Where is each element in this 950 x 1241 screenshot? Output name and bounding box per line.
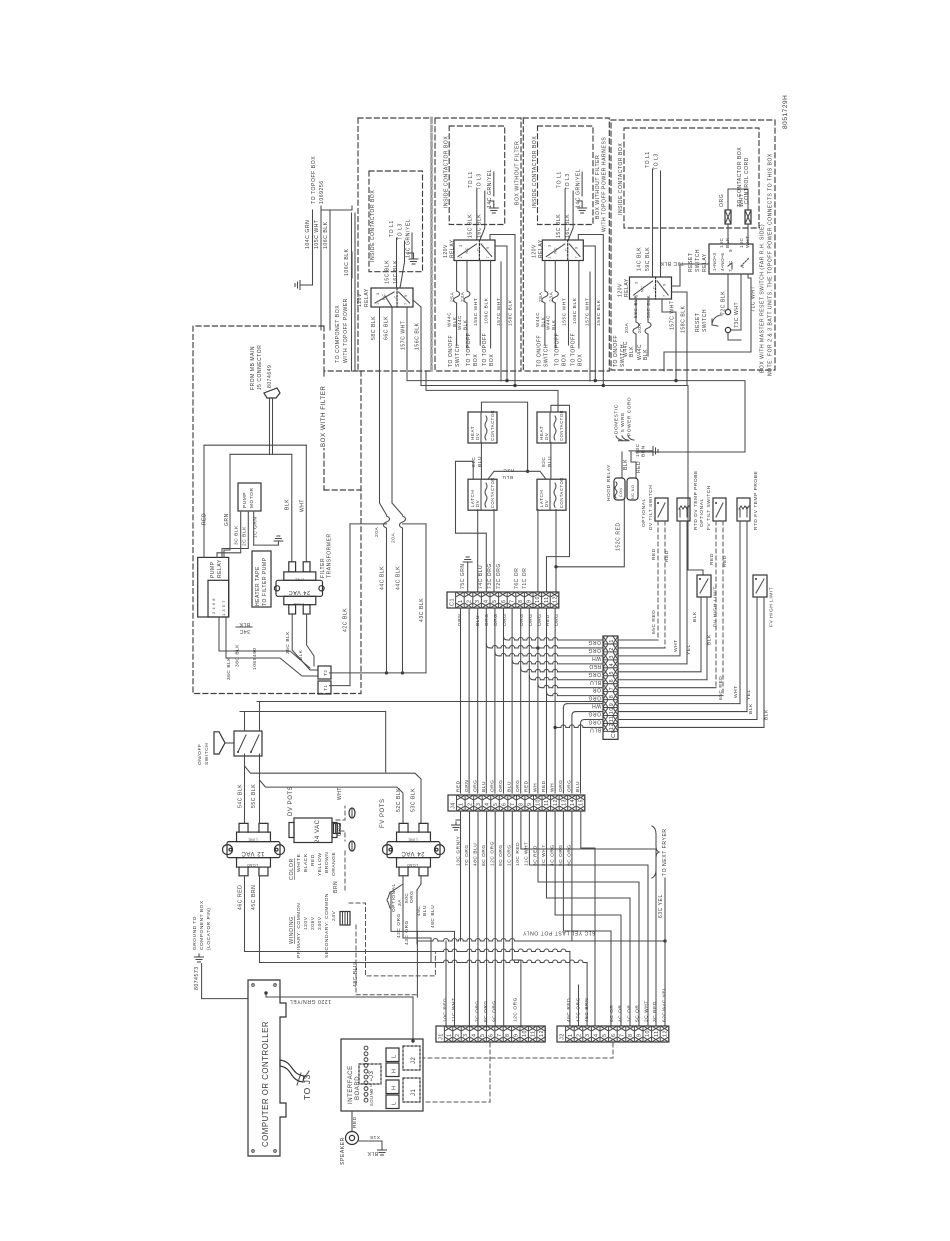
wire DV HL b [706,597,708,680]
svg-text:TO L1: TO L1 [468,171,474,188]
svg-text:OPTIONAL: OPTIONAL [391,883,397,912]
svg-text:4: 4 [484,599,490,603]
svg-text:WINDING: WINDING [289,916,295,944]
svg-text:ORG: ORG [337,823,343,836]
wire 49C dashed link [349,903,435,976]
svg-text:J2: J2 [411,1056,417,1064]
svg-text:157C WHT: 157C WHT [670,300,676,330]
svg-text:20A: 20A [637,323,643,333]
wire 158C BLK [490,235,515,386]
wire J4p3 down [477,811,479,1026]
svg-text:16C BLK: 16C BLK [393,260,399,284]
svg-text:BRN: BRN [333,881,339,893]
wire J4p8 right [521,811,656,1026]
svg-text:155C WHT: 155C WHT [473,298,479,326]
wire C6 row9 to J4 pin13 [567,703,603,705]
svg-text:GRN: GRN [224,513,230,526]
svg-text:3: 3 [585,1033,591,1037]
svg-text:COMPUTER OR CONTROLLER: COMPUTER OR CONTROLLER [261,1021,270,1147]
svg-text:NOTE: FOR 2 & 3 BATT UNITS, TH: NOTE: FOR 2 & 3 BATT UNITS, THE TOPOFF P… [768,153,774,376]
relay 120V [454,240,495,261]
fuse OPTIONAL 3A [387,892,390,908]
relay reset switch relay [709,244,753,274]
svg-text:5: 5 [492,599,498,603]
wire C1 pin4 to J4 [485,608,487,793]
svg-text:1: 1 [547,256,551,259]
svg-text:5: 5 [602,1033,608,1037]
wire C1 pin3 to J4 [477,608,479,793]
svg-text:11: 11 [544,596,550,603]
svg-text:75C GRN: 75C GRN [460,563,466,589]
svg-text:CONTACTOR: CONTACTOR [490,477,495,508]
breaker 20A b (box4) [645,322,651,334]
wire J4p10 right [538,811,639,1026]
wire 157C WHT (box4) [662,299,676,381]
svg-text:BOX WITH MASTER RESET SWITCH (: BOX WITH MASTER RESET SWITCH (FAR R.H. S… [760,224,766,373]
svg-text:J3: J3 [369,1070,375,1078]
svg-text:7: 7 [486,256,490,259]
hood relay HR [614,478,625,500]
svg-text:ORG: ORG [490,779,496,792]
svg-text:45C BRN: 45C BRN [251,885,257,910]
svg-text:BLK: BLK [748,703,754,714]
svg-text:1 3 5 7: 1 3 5 7 [221,600,226,616]
svg-text:106C BLK: 106C BLK [572,297,578,324]
wire FV out left [391,876,403,892]
svg-text:120V: 120V [531,244,537,258]
svg-text:J2: J2 [560,1033,566,1040]
svg-text:16C BLK: 16C BLK [477,214,483,238]
svg-text:12 VAC: 12 VAC [241,850,265,856]
T1 terminal [318,681,331,694]
speaker SP1 [346,1132,359,1145]
svg-text:6: 6 [501,802,507,806]
wire J4p15 down [581,811,595,1026]
svg-text:GRN: GRN [464,780,470,792]
svg-text:DV: DV [544,432,549,440]
svg-text:10: 10 [609,707,615,714]
svg-text:158C BLK: 158C BLK [596,299,602,326]
connector J2 on board (dashed) [403,1046,420,1070]
svg-text:3: 3 [547,244,551,247]
wire J4p12 right [555,811,621,1026]
svg-text:9C ORG: 9C ORG [498,844,504,866]
svg-text:73C ORG: 73C ORG [487,563,493,589]
svg-text:BLK: BLK [707,634,713,645]
wire 42C ORG [391,892,417,931]
tilt switch DV (optional) [655,498,668,521]
svg-text:ORG: ORG [493,613,499,626]
tilt switch FV (optional) [713,498,726,521]
svg-text:INTERFACE: INTERFACE [348,1065,354,1104]
svg-text:RED: RED [636,461,642,473]
svg-text:CONTACTOR: CONTACTOR [490,410,495,441]
wire 82C BLU [550,442,552,479]
svg-text:RED: RED [524,780,530,792]
wire 2C BLK [222,512,248,557]
svg-text:14C GRN/YEL: 14C GRN/YEL [406,219,412,258]
svg-text:(LOCATOR PIN): (LOCATOR PIN) [206,908,212,950]
wire 1C GRN [253,512,255,545]
wire C1 pin5 to J4 [494,608,496,793]
svg-text:4: 4 [594,1033,600,1037]
wire J4p6 down [503,811,505,1026]
bus rail 4 [500,380,502,382]
svg-text:BLK: BLK [285,499,291,510]
svg-text:7: 7 [509,599,515,603]
svg-text:1220 GRN/YEL: 1220 GRN/YEL [289,998,331,1004]
svg-text:BLACK: BLACK [303,853,309,872]
svg-text:TO CONTACTOR BOX: TO CONTACTOR BOX [737,147,743,207]
svg-text:208V: 208V [310,916,316,930]
svg-text:106C BLK: 106C BLK [344,248,350,276]
heater tape box [252,551,271,607]
svg-text:OPTIONAL: OPTIONAL [699,498,705,527]
svg-text:J1: J1 [411,1088,417,1096]
wire tilt FV dashed b [722,521,724,696]
svg-text:42C BLK: 42C BLK [343,608,349,632]
svg-text:10: 10 [522,1030,528,1037]
wire C6 right 4 [618,663,687,665]
bus rail 2 [421,386,703,576]
svg-text:11: 11 [544,799,550,806]
svg-text:WHT: WHT [337,787,343,800]
svg-text:5: 5 [480,1033,486,1037]
svg-text:62C/64C YEL: 62C/64C YEL [662,987,668,1022]
svg-text:3: 3 [476,802,482,806]
svg-text:158C BLK: 158C BLK [508,299,514,326]
svg-text:BLU: BLU [422,905,428,916]
wire rail 711 [240,712,386,773]
wire fuse F2 to reset relay [747,224,749,244]
svg-text:RELAY: RELAY [450,239,456,258]
wire power cord BLK [621,452,623,478]
svg-text:55C BLK: 55C BLK [251,784,257,808]
svg-text:156C BLK: 156C BLK [415,322,421,350]
svg-text:CONTACTOR: CONTACTOR [559,477,564,508]
svg-text:120V: 120V [357,293,363,307]
wire power cord RED [631,452,636,478]
svg-text:43C ORG: 43C ORG [404,920,410,945]
svg-text:12C ORG: 12C ORG [513,997,519,1022]
svg-text:6: 6 [488,1033,494,1037]
wire W44C BLK b (box4) [647,334,649,356]
wire speaker RED [351,1111,353,1131]
wire FV HL a [756,597,758,720]
svg-text:48C BLU: 48C BLU [353,963,359,987]
fuse F2 (box4) [745,210,751,224]
svg-text:158C BLK: 158C BLK [681,305,687,333]
svg-text:RED: RED [664,550,670,562]
svg-text:TO L1: TO L1 [389,220,395,237]
wire 73C WHT [731,274,741,330]
wire C6 right 8 [618,695,723,697]
wire 54C BLK [244,754,246,823]
svg-text:6: 6 [611,1033,617,1037]
svg-text:LOAD: LOAD [407,863,418,867]
wire speaker to ground [358,1141,382,1147]
wire latch1 left loop [456,461,487,592]
svg-text:120V: 120V [618,283,624,297]
wire topoff feed b [354,213,356,371]
svg-text:74C BLU: 74C BLU [478,565,484,589]
svg-text:TO COMPONET BOX: TO COMPONET BOX [335,305,341,363]
connector C1 [447,592,559,608]
ground speaker [381,1147,383,1150]
svg-text:R2C: R2C [503,467,514,473]
svg-text:1069490: 1069490 [252,647,258,670]
ground power cord [650,450,653,452]
wire relay R1 pin to 66C [391,307,393,372]
wire DV pots ORG dashed [340,831,345,841]
mid box inner dashed INSIDE CONTACTOR BOX [449,126,505,225]
svg-text:58C BLK: 58C BLK [633,295,639,318]
pump motor PM [238,483,261,511]
wire C6 row5 from C1 pin8 [521,668,525,672]
wire J4p5 down [494,811,496,1026]
svg-text:18C: 18C [739,237,745,248]
wire rail 773 [245,766,422,823]
svg-text:5 WIRE: 5 WIRE [620,412,626,432]
svg-text:11: 11 [609,715,615,722]
svg-text:C1: C1 [450,598,456,606]
wire 81C BLU [480,442,482,479]
svg-text:TO ON/OFF: TO ON/OFF [613,335,619,367]
svg-text:SECONDARY: COMMON: SECONDARY: COMMON [324,893,330,958]
svg-text:3: 3 [459,244,463,247]
wire 104C GRN [312,210,314,253]
box4 inner dashed INSIDE CONTACTOR BOX [624,128,759,228]
wire T2 rail [330,672,427,674]
wire 8074573 down [201,964,203,999]
svg-text:7: 7 [619,1033,625,1037]
wire 43C BLK [403,523,427,525]
svg-text:9: 9 [527,802,533,806]
wire DV pots WHT dashed [336,806,345,820]
svg-text:14C BLK: 14C BLK [637,247,643,271]
svg-text:BOX: BOX [577,354,583,366]
wire W44C BLK a [456,303,458,345]
svg-text:1C GRN: 1C GRN [253,517,259,538]
svg-text:11: 11 [530,1030,536,1037]
svg-text:240V: 240V [317,916,323,930]
svg-text:RTD DV TEMP PROBE: RTD DV TEMP PROBE [693,470,699,530]
svg-text:2: 2 [467,802,473,806]
box1 right edge gray dashed divider [430,118,433,371]
transformer T-FVPOTS [383,845,393,855]
svg-text:BOX WITHOUT FILTER: BOX WITHOUT FILTER [515,141,521,205]
svg-text:X18: X18 [370,1134,380,1140]
wire 36C BLK [219,617,310,668]
header L2 on board [386,1095,399,1109]
svg-text:NC: NC [465,247,469,254]
wire breaker 23A [554,261,556,292]
wire TO L1 to relay R1 [396,238,398,288]
svg-text:12: 12 [552,596,558,603]
svg-text:TO TOPOFF BOX: TO TOPOFF BOX [311,156,317,204]
svg-text:BOX WITHOUT FILTER: BOX WITHOUT FILTER [595,155,601,219]
svg-text:TO J3: TO J3 [302,1074,312,1100]
svg-text:34C: 34C [239,628,250,634]
svg-text:6: 6 [501,599,507,603]
ground (104C GRN) [300,284,303,286]
svg-text:YEL: YEL [746,689,752,700]
svg-text:LOAD: LOAD [247,863,258,867]
transformer T-12VAC [223,845,233,855]
wire TO L3 [480,191,485,240]
fuse oval DV a [349,808,355,818]
svg-text:J1: J1 [438,1033,444,1040]
probe RTD DV TEMP [677,498,690,521]
wire tilt DV dashed a [657,521,659,640]
svg-text:3: 3 [463,1033,469,1037]
wire 153C BRN [628,450,630,452]
svg-text:RED: RED [722,555,728,567]
svg-text:C6: C6 [611,730,617,738]
wire heat2 feed [547,405,570,592]
wire J4p11 right [547,811,631,1026]
svg-text:BLK: BLK [623,459,629,470]
svg-text:W44C: W44C [457,315,462,330]
svg-text:120V: 120V [443,244,449,258]
svg-text:9: 9 [527,599,533,603]
svg-text:ORANGE: ORANGE [331,851,337,876]
svg-text:LINE: LINE [295,578,304,582]
svg-text:ORG: ORG [498,779,504,792]
wire C1 pin7 to J4 [511,608,513,793]
wire C1 pin11 to J4 [546,608,548,793]
svg-text:8051729H: 8051729H [782,95,789,129]
probe FV wires [739,521,741,704]
box4 INSIDE CONTACTOR BOX w/ master reset (dashed) [611,120,775,370]
wire C6 row10 to J4 pin14 [576,711,603,713]
svg-text:24 VAC: 24 VAC [315,819,321,843]
svg-text:TO L3: TO L3 [565,173,571,190]
svg-text:RESET: RESET [695,313,701,332]
wire 55C BLK [259,754,261,823]
bracket to topoff box [321,206,352,210]
wire rail 951 (46C) [245,951,444,953]
connector J1 on board (dashed) [403,1078,420,1102]
svg-text:PRIMARY: COMMON: PRIMARY: COMMON [296,903,302,958]
svg-text:16C BLK: 16C BLK [565,214,571,238]
svg-text:SWITCH: SWITCH [695,249,701,272]
svg-text:PUMP: PUMP [242,492,248,508]
svg-text:TO TOPOFF: TO TOPOFF [466,333,472,366]
svg-text:3: 3 [635,281,639,284]
svg-text:RELAY: RELAY [538,239,544,258]
svg-text:ORG: ORG [558,779,564,792]
svg-text:4•NO•6: 4•NO•6 [720,252,725,271]
svg-text:SWITCH: SWITCH [543,344,549,367]
svg-text:153C: 153C [635,443,641,457]
svg-text:RELAY: RELAY [624,278,630,297]
svg-text:BLK: BLK [643,349,649,360]
svg-text:1: 1 [446,1033,452,1037]
probe RTD FV TEMP [737,498,750,521]
wire 47C ORG feed [578,985,580,1026]
wire topoff feed a [351,213,353,371]
svg-text:L: L [392,1101,398,1105]
reset switch pin 2 [725,327,730,332]
wire BLK (xfmr) [291,454,293,562]
svg-text:2: 2 [466,599,472,603]
wire C6 row11 to J4 pin15 [585,719,604,721]
wire switch up left [244,712,246,732]
svg-text:61C YEL LAST POT ONLY: 61C YEL LAST POT ONLY [523,930,595,936]
wire 155C WHT stub [479,261,481,346]
svg-text:9: 9 [663,283,667,286]
svg-text:65C RED: 65C RED [718,676,724,700]
svg-text:WHITE: WHITE [296,853,302,872]
wire 62C/64C YEL [664,941,666,1026]
svg-text:BLK: BLK [551,319,556,330]
wire breaker 25A [456,261,458,292]
wire 71C WHT [664,274,751,371]
svg-text:45C BRN: 45C BRN [584,998,590,1022]
svg-text:RED: RED [541,780,547,792]
wire heat1 feed [481,402,527,471]
svg-text:9: 9 [574,246,578,249]
wire relay R4 out 58C b [647,299,649,322]
wire 42C down to interface [416,931,418,997]
svg-text:T2: T2 [323,670,328,676]
mid contactor box dashed [435,118,521,371]
wire C6 row7 from C1 pin10 [538,684,542,688]
svg-text:ORG: ORG [719,194,725,207]
svg-text:BOX: BOX [489,354,495,366]
wire 72C BLK [727,274,729,309]
svg-text:BROWN: BROWN [324,852,330,873]
svg-text:11C WHT: 11C WHT [524,841,530,866]
wire C6 row2 from C1 pin4 [486,644,490,648]
interface pin row [364,1046,368,1050]
svg-text:C: C [476,248,480,251]
svg-text:DV POTS: DV POTS [288,786,294,816]
svg-text:157C WHT: 157C WHT [584,298,590,326]
svg-text:RED: RED [709,553,715,565]
ground 14C GRN/YEL [577,200,582,202]
relay 120V [542,240,583,261]
connector J4 [448,795,585,811]
svg-text:14: 14 [570,799,576,806]
svg-text:13: 13 [561,799,567,806]
svg-text:LOAD: LOAD [293,602,304,606]
svg-text:8C ORG: 8C ORG [483,1000,489,1022]
wire J4p2 down [469,811,471,1026]
ground J4 pin1 [460,811,462,820]
wire TO L3 to relay R1 [404,241,406,262]
svg-text:TO L1: TO L1 [556,171,562,188]
svg-text:BLK: BLK [629,346,635,357]
svg-text:4: 4 [609,663,615,667]
svg-text:52C BLK: 52C BLK [396,788,402,812]
label BOX WITH FILTER [317,378,328,448]
svg-text:15C BLK: 15C BLK [468,214,474,238]
svg-text:8074649: 8074649 [267,365,273,388]
svg-text:82C: 82C [541,457,547,467]
svg-text:10: 10 [535,596,541,603]
svg-text:8: 8 [609,695,615,699]
svg-text:20A: 20A [374,527,380,537]
svg-text:FV POTS: FV POTS [380,798,386,828]
svg-text:63C YEL: 63C YEL [658,894,664,918]
svg-text:BOARD: BOARD [355,1076,361,1100]
svg-text:TO L3: TO L3 [398,223,404,240]
svg-text:FV HIGH LIMIT: FV HIGH LIMIT [769,587,775,627]
svg-text:54C BLK: 54C BLK [238,784,244,808]
svg-text:TO TOPOFF: TO TOPOFF [482,333,488,366]
